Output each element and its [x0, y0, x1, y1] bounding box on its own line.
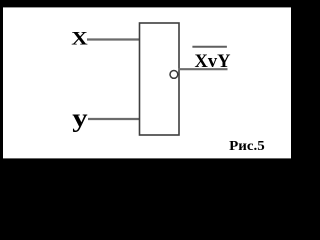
wire input X — [87, 38, 140, 40]
svg-text:XvY: XvY — [195, 52, 232, 72]
wire input y — [88, 118, 140, 120]
wire output — [179, 68, 228, 70]
svg-text:Рис.5: Рис.5 — [229, 138, 265, 153]
inversion bubble on output — [170, 71, 178, 79]
black frame background — [0, 0, 294, 163]
logic gate U1 body (NOR element) — [140, 23, 180, 135]
white drawing area — [3, 7, 291, 158]
overline (NOT bar) over output label — [192, 46, 227, 48]
svg-text:X: X — [71, 27, 87, 49]
svg-text:y: y — [72, 104, 87, 132]
